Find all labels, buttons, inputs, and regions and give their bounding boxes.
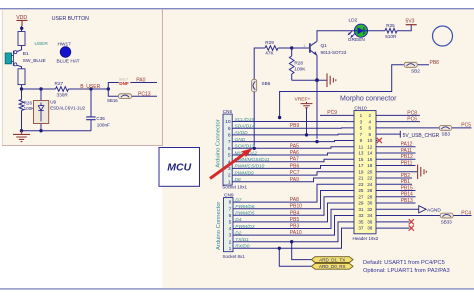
- svg-text:9: 9: [228, 126, 231, 132]
- svg-text:10: 10: [225, 119, 231, 125]
- svg-text:B_USER: B_USER: [80, 84, 100, 90]
- svg-text:18: 18: [367, 163, 373, 168]
- node TX/D1 tap: [290, 240, 293, 243]
- svg-text:HW17: HW17: [58, 41, 72, 47]
- net tag ARD_D1_TX: [311, 257, 353, 263]
- wire SB2 net (PB8): [280, 65, 429, 118]
- svg-text:37: 37: [358, 226, 364, 231]
- note UART default/optional: [363, 260, 450, 274]
- svg-text:100K: 100K: [294, 67, 306, 72]
- svg-text:1: 1: [360, 113, 363, 118]
- wire R29 to Q1 base: [278, 47, 309, 49]
- svg-text:SB2: SB2: [411, 69, 420, 74]
- node U9 tap: [39, 87, 42, 90]
- svg-text:7: 7: [360, 132, 363, 137]
- node AVDD/VREF+: [305, 133, 308, 136]
- svg-text:5: 5: [360, 126, 363, 131]
- svg-text:2: 2: [228, 173, 231, 179]
- svg-text:PA11: PA11: [401, 148, 413, 154]
- svg-text:SDA/D14: SDA/D14: [235, 124, 255, 130]
- wire PWM/D6 CN9 pin7 to CN10 pin25: [233, 191, 354, 210]
- svg-text:PC9: PC9: [327, 110, 337, 116]
- svg-text:MCU: MCU: [167, 162, 191, 174]
- wire CN10 pin34 via SB33 to PC4: [376, 210, 472, 224]
- svg-text:11: 11: [359, 144, 364, 149]
- svg-text:PB14: PB14: [401, 192, 413, 198]
- svg-text:22: 22: [367, 176, 373, 181]
- svg-text:R25: R25: [386, 23, 395, 28]
- svg-text:32: 32: [367, 207, 373, 212]
- svg-text:Optional: LPUART1 from PA2/PA3: Optional: LPUART1 from PA2/PA3: [363, 268, 450, 274]
- solder bridge SB2: [404, 62, 420, 73]
- svg-text:PB3: PB3: [290, 224, 300, 230]
- svg-text:23: 23: [358, 182, 364, 187]
- wire D7 CN9 pin8 to CN10 pin23: [233, 184, 354, 203]
- svg-text:14: 14: [367, 151, 373, 156]
- svg-text:15: 15: [358, 157, 364, 162]
- wire emitter to ground rail: [316, 55, 318, 80]
- wire ground rail: [22, 130, 92, 132]
- wire CN10 pin4 PC6: [376, 117, 420, 123]
- svg-text:PWM/D5: PWM/D5: [235, 211, 255, 217]
- node base/R28: [290, 46, 293, 49]
- svg-text:Socket 10x1: Socket 10x1: [222, 184, 247, 189]
- node button bottom: [20, 87, 23, 90]
- capacitor C35 100nF: [86, 89, 110, 131]
- connector CN5 (Arduino, Socket 10x1): [216, 109, 248, 189]
- solder bridge SB6: [252, 79, 271, 92]
- resistor R26 100K: [19, 89, 35, 131]
- wire CN10 pin2 PC8: [376, 110, 420, 116]
- wire SCL/D15 CN5 pin10 to CN10 pin3: [232, 117, 354, 123]
- power flag VDD: [16, 15, 27, 26]
- node GND row / Q1 ground: [315, 140, 318, 143]
- wire CN10 pin28 PB14: [376, 192, 416, 198]
- resistor R25 510R: [385, 23, 397, 39]
- DNF mark (SB17): [119, 78, 131, 86]
- wire emitter ground rail: [292, 79, 327, 81]
- svg-text:PA10: PA10: [290, 230, 302, 236]
- svg-text:SB33: SB33: [441, 220, 453, 225]
- svg-text:PC6: PC6: [407, 117, 417, 123]
- wire CN10 pin18 PB11: [376, 160, 416, 166]
- no-connect X CN10 pin38: [376, 225, 414, 230]
- svg-text:B1: B1: [23, 51, 29, 57]
- hardware HW17 BLUE HAT: [57, 41, 80, 64]
- svg-text:6: 6: [228, 146, 231, 152]
- net label PC9 + wire CN10 pin1: [320, 110, 354, 116]
- svg-text:6: 6: [229, 213, 232, 219]
- svg-text:9: 9: [360, 138, 363, 143]
- red arrow annotation: [210, 148, 252, 178]
- lower resistor body: [18, 69, 25, 85]
- svg-text:38: 38: [367, 226, 373, 231]
- svg-text:34: 34: [367, 213, 373, 218]
- svg-text:PB15: PB15: [401, 185, 413, 191]
- svg-text:PB1: PB1: [401, 179, 411, 185]
- svg-text:PA8: PA8: [290, 197, 299, 203]
- svg-text:12: 12: [367, 144, 373, 149]
- resistor body (button series element): [18, 32, 25, 46]
- svg-text:D2: D2: [235, 230, 241, 236]
- svg-text:PB8: PB8: [430, 60, 440, 66]
- svg-text:33: 33: [358, 213, 364, 218]
- svg-text:27: 27: [358, 194, 364, 199]
- svg-text:Default: USART1 from PC4/PC5: Default: USART1 from PC4/PC5: [363, 260, 445, 266]
- svg-text:R27: R27: [55, 81, 64, 86]
- svg-text:BLUE HAT: BLUE HAT: [57, 58, 80, 64]
- svg-text:PC5: PC5: [461, 123, 471, 129]
- svg-text:30: 30: [367, 201, 373, 206]
- wire PWM/CS/D10 CN5 pin3 to CN10 pin17: [232, 163, 354, 169]
- svg-text:28: 28: [367, 194, 373, 199]
- svg-text:35: 35: [358, 219, 364, 224]
- wire CN10 pin16 PB12: [376, 154, 416, 160]
- svg-text:4: 4: [369, 119, 372, 124]
- svg-text:R28: R28: [294, 60, 303, 65]
- wire B_USER to PC13 branch: [108, 89, 157, 96]
- svg-text:21: 21: [358, 176, 364, 181]
- svg-text:6: 6: [369, 126, 372, 131]
- wire RX/D0 CN9 pin1 to CN10 pin37: [233, 228, 354, 250]
- wire VREF+ to AVDD row: [306, 108, 308, 135]
- svg-text:3: 3: [360, 119, 363, 124]
- svg-text:TX/D1: TX/D1: [235, 237, 249, 243]
- net tag ARD_D0_RX: [311, 263, 353, 269]
- svg-text:PWM/D9: PWM/D9: [235, 170, 255, 176]
- wire D4 CN9 pin5 to CN10 pin29: [233, 203, 354, 223]
- svg-text:2: 2: [229, 239, 232, 245]
- svg-text:PC7: PC7: [290, 170, 300, 176]
- svg-text:AGND: AGND: [427, 207, 441, 213]
- svg-text:PB5: PB5: [290, 217, 300, 223]
- wire CN10 pin24 PB1: [376, 179, 412, 185]
- svg-text:PB11: PB11: [401, 160, 413, 166]
- node gnd U9: [39, 129, 42, 132]
- resistor R28 100K: [289, 48, 306, 80]
- node emitter/gnd: [315, 78, 319, 82]
- svg-text:ESDALC6V1-1U2: ESDALC6V1-1U2: [50, 106, 85, 111]
- svg-text:SB16: SB16: [107, 98, 118, 103]
- svg-text:7: 7: [229, 206, 232, 212]
- wire GND CN5 pin7 to CN10 pin9: [232, 137, 354, 143]
- wire VDD to resistor: [21, 26, 23, 32]
- svg-text:VREF+: VREF+: [295, 97, 311, 103]
- wire B_USER to PA0 branch: [108, 83, 157, 90]
- svg-text:24: 24: [367, 182, 373, 187]
- svg-text:SCL/D15: SCL/D15: [235, 117, 255, 123]
- svg-text:510R: 510R: [385, 34, 397, 39]
- wire CN10 pin26 PB15: [376, 185, 416, 191]
- wire PWM/D5 CN9 pin6 to CN10 pin27: [233, 197, 354, 217]
- svg-text:PWM/CS/D10: PWM/CS/D10: [235, 164, 265, 170]
- connector CN10 (Morpho, Header 19x2): [353, 105, 379, 241]
- wire resistor to switch contact: [17, 46, 22, 52]
- svg-text:36: 36: [367, 219, 373, 224]
- svg-text:8: 8: [229, 200, 232, 206]
- solder bridge SB16: [107, 94, 132, 103]
- svg-text:PA0: PA0: [136, 78, 145, 84]
- wire D2 CN9 pin3 to CN10 pin33: [233, 216, 354, 237]
- svg-text:5V3: 5V3: [406, 18, 415, 24]
- wire D8 CN5 pin1 to CN10 pin21: [232, 177, 354, 183]
- svg-text:D8: D8: [235, 177, 241, 183]
- svg-text:PB9: PB9: [290, 123, 300, 129]
- svg-text:SB6: SB6: [262, 81, 271, 86]
- wire CN10 pin6 via SB3 to PC5: [376, 123, 472, 137]
- svg-text:GREEN: GREEN: [348, 37, 366, 43]
- wire SB6 down to SCK/D13: [253, 92, 255, 146]
- wire SDA/D14 CN5 pin9 to CN10 pin5: [232, 123, 354, 129]
- wire B_USER rail: [22, 88, 109, 90]
- svg-text:10: 10: [367, 138, 373, 143]
- svg-text:PC4: PC4: [461, 210, 471, 216]
- svg-text:ARD_D1_TX: ARD_D1_TX: [319, 257, 345, 262]
- ground (sideways) near Q1: [327, 73, 336, 87]
- wire AVDD CN5 pin8 to CN10 pin7: [232, 130, 354, 136]
- svg-text:29: 29: [358, 201, 364, 206]
- svg-text:R29: R29: [265, 40, 274, 45]
- wire PWM/D3 CN9 pin4 to CN10 pin31: [233, 209, 354, 230]
- push button B1 SW_BLUE: [5, 51, 46, 66]
- svg-text:47K: 47K: [265, 51, 274, 56]
- wire RX/D0 to tag ARD_D0_RX: [279, 248, 311, 266]
- svg-text:PWM/D3: PWM/D3: [235, 224, 255, 230]
- svg-text:Socket 8x1: Socket 8x1: [223, 254, 246, 259]
- wire collector to LED: [317, 31, 355, 42]
- svg-text:8: 8: [369, 132, 372, 137]
- wire to B_USER rail: [21, 85, 23, 89]
- svg-text:PA6: PA6: [290, 150, 299, 156]
- svg-text:PWM/D6: PWM/D6: [235, 204, 255, 210]
- svg-text:31: 31: [358, 207, 364, 212]
- no-connect X CN10 pin36: [376, 219, 414, 224]
- power port VREF+: [295, 97, 313, 108]
- svg-text:Header 19x2: Header 19x2: [353, 236, 379, 241]
- svg-text:C35: C35: [96, 116, 105, 121]
- svg-text:GND: GND: [235, 137, 246, 143]
- svg-text:16: 16: [367, 157, 373, 162]
- svg-text:330R: 330R: [57, 92, 69, 97]
- wire switch to lower resistor: [17, 65, 22, 69]
- wire LED to R25: [368, 30, 385, 32]
- user button section border: [2, 9, 162, 145]
- wire CN10 pin14 PA11: [376, 148, 416, 154]
- wire SCK/D13 CN5 pin6 to CN10 pin11: [232, 143, 354, 149]
- svg-text:5V_USB_CHGR: 5V_USB_CHGR: [403, 133, 440, 139]
- ground: [13, 131, 30, 142]
- node SCK/D13 and SB6 junction: [253, 147, 256, 150]
- node button top: [20, 27, 23, 30]
- svg-text:1: 1: [229, 246, 232, 252]
- power flag 5V3: [406, 18, 417, 24]
- svg-text:R26: R26: [24, 100, 33, 105]
- node B_USER split: [107, 87, 110, 90]
- svg-text:PB2: PB2: [401, 173, 411, 179]
- LED LD2 GREEN: [348, 17, 368, 43]
- svg-text:SB3: SB3: [442, 132, 451, 137]
- svg-text:4: 4: [229, 226, 232, 232]
- svg-text:PB12: PB12: [401, 154, 413, 160]
- svg-text:PA9: PA9: [290, 177, 299, 183]
- svg-text:PA7: PA7: [290, 157, 299, 163]
- svg-text:2: 2: [369, 113, 372, 118]
- wire CN10 pin12 PA12: [376, 142, 416, 148]
- svg-text:5: 5: [229, 220, 232, 226]
- wire PWM/D9 CN5 pin2 to CN10 pin19: [232, 170, 354, 176]
- MCU box: [159, 148, 200, 187]
- node SCL/PB8 tap: [278, 116, 281, 119]
- svg-text:PB4: PB4: [290, 210, 300, 216]
- annotation circle: [433, 26, 453, 46]
- svg-text:Arduino Connector: Arduino Connector: [216, 119, 222, 167]
- svg-text:100nF: 100nF: [97, 122, 110, 127]
- svg-text:USER: USER: [35, 41, 49, 47]
- AGND CN10 pin32: [376, 206, 441, 214]
- transistor Q1 9013-SOT23: [310, 41, 347, 55]
- ground CN10 pin20 (sideways): [376, 165, 426, 179]
- svg-text:5: 5: [228, 153, 231, 159]
- node gnd R26: [20, 129, 23, 132]
- svg-text:LD2: LD2: [349, 17, 358, 23]
- svg-text:AVDD: AVDD: [234, 130, 249, 136]
- svg-text:D4: D4: [235, 217, 241, 223]
- svg-text:DNF: DNF: [119, 81, 129, 86]
- svg-text:PC8: PC8: [407, 110, 417, 116]
- wire CN10 pin22 PB2: [376, 173, 412, 179]
- svg-text:20: 20: [367, 169, 373, 174]
- svg-text:8: 8: [228, 133, 231, 139]
- svg-text:Arduino Connector: Arduino Connector: [216, 202, 222, 250]
- svg-text:1: 1: [303, 44, 305, 48]
- resistor R29 47K: [265, 40, 278, 55]
- svg-text:7: 7: [228, 139, 231, 145]
- svg-text:PA12: PA12: [401, 142, 413, 148]
- svg-text:Q1: Q1: [321, 43, 328, 49]
- wire ground drop to CN10 GND row: [316, 80, 318, 139]
- svg-text:PA5: PA5: [290, 143, 299, 149]
- resistor R27 330R: [55, 81, 69, 97]
- no-connect X CN10 pin10: [376, 138, 382, 143]
- wire MISO/D12 CN5 pin5 to CN10 pin13: [232, 150, 354, 156]
- svg-text:PB13: PB13: [401, 198, 413, 204]
- power 5V_USB_CHGR CN10 pin8: [376, 131, 440, 139]
- svg-text:9013-SOT23: 9013-SOT23: [321, 50, 347, 55]
- svg-text:17: 17: [358, 163, 364, 168]
- svg-text:RX/D0: RX/D0: [235, 244, 249, 250]
- svg-text:PB10: PB10: [290, 204, 302, 210]
- connector CN9 (Arduino, Socket 8x1): [216, 192, 245, 259]
- svg-text:25: 25: [358, 188, 364, 193]
- svg-text:26: 26: [367, 188, 373, 193]
- svg-text:3: 3: [229, 233, 232, 239]
- svg-text:PC13: PC13: [138, 91, 151, 97]
- svg-text:19: 19: [358, 169, 364, 174]
- svg-text:D7: D7: [235, 197, 241, 203]
- wire CN10 pin30 PB13: [376, 198, 416, 204]
- svg-text:USER BUTTON: USER BUTTON: [52, 16, 89, 22]
- svg-text:ARD_D0_RX: ARD_D0_RX: [319, 264, 346, 269]
- node RX/D0 tap: [278, 247, 281, 250]
- svg-text:Morpho connector: Morpho connector: [340, 96, 397, 103]
- wire R25 to 5V3: [397, 25, 411, 31]
- wire PWM/MOSI/D11 CN5 pin4 to CN10 pin15: [232, 157, 354, 163]
- node C35 tap: [89, 87, 92, 90]
- svg-text:13: 13: [358, 151, 364, 156]
- svg-text:U9: U9: [50, 100, 56, 105]
- svg-text:SW_BLUE: SW_BLUE: [23, 58, 46, 64]
- svg-text:PB6: PB6: [290, 163, 300, 169]
- ESD protection U9 ESDALC6V1-1U2: [34, 89, 86, 131]
- wire SB6 up to R29: [254, 48, 265, 80]
- wire TX/D1 CN9 pin2 to CN10 pin35: [233, 222, 354, 243]
- wire TX/D1 to tag ARD_D1_TX: [292, 242, 312, 260]
